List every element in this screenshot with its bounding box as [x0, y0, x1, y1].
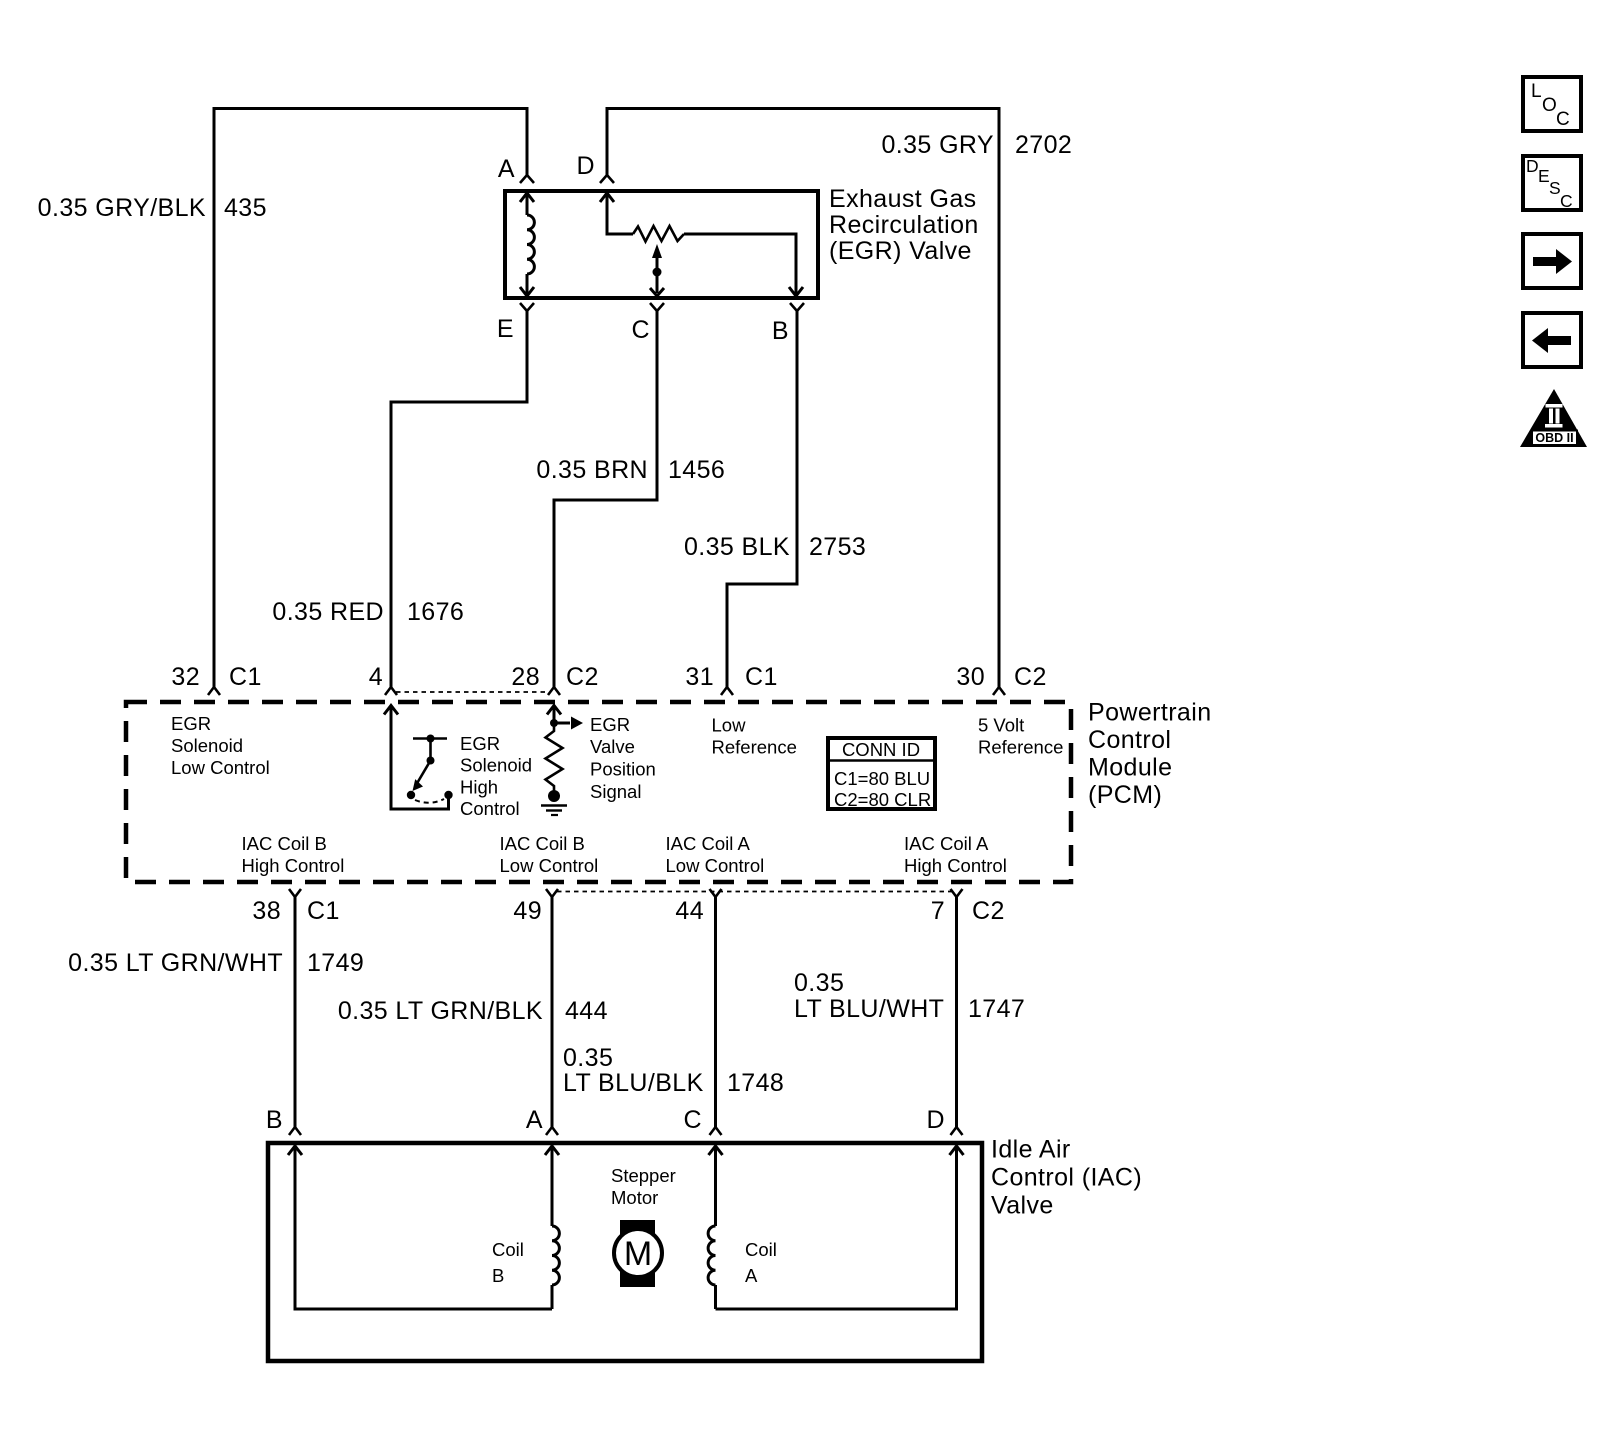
svg-text:C: C [1560, 191, 1573, 211]
IAC pin B connector [289, 1127, 301, 1135]
svg-text:44: 44 [675, 897, 704, 925]
svg-text:C1: C1 [745, 663, 778, 691]
PCM pin 38 connector [289, 889, 301, 897]
svg-text:0.35 GRY/BLK: 0.35 GRY/BLK [38, 194, 206, 222]
EGR valve box [505, 191, 818, 298]
nav icon LOC [1523, 77, 1581, 131]
wire 1748: PCM pin 44 to IAC pin C (0.35 LT BLU/BLK) [714, 897, 717, 1127]
stepper motor M [614, 1220, 662, 1287]
PCM pin 4 connector [385, 687, 397, 695]
svg-text:OBD II: OBD II [1535, 431, 1573, 445]
svg-text:444: 444 [565, 997, 608, 1025]
PCM pin 30 connector [993, 687, 1005, 695]
svg-text:D: D [927, 1106, 945, 1134]
svg-text:E: E [1538, 166, 1550, 186]
svg-text:C2: C2 [972, 897, 1005, 925]
svg-text:1747: 1747 [968, 995, 1025, 1023]
nav icon back arrow [1523, 313, 1581, 367]
svg-text:C1=80 BLU: C1=80 BLU [834, 768, 930, 789]
PCM pin 31 connector [721, 687, 733, 695]
connector link (dashed) pins 49-44-7 [557, 891, 952, 893]
IAC pin A connector [546, 1127, 558, 1135]
svg-text:38: 38 [252, 897, 281, 925]
svg-text:49: 49 [513, 897, 542, 925]
EGR pin B connector [790, 303, 804, 311]
wire 435: PCM pin 32 to EGR pin A (0.35 GRY/BLK) [214, 109, 527, 688]
svg-text:IAC Coil BLow Control: IAC Coil BLow Control [500, 833, 599, 876]
svg-text:B: B [772, 317, 789, 345]
svg-text:30: 30 [956, 663, 985, 691]
svg-text:D: D [577, 152, 595, 180]
svg-text:C1: C1 [229, 663, 262, 691]
svg-text:2702: 2702 [1015, 131, 1072, 159]
svg-text:32: 32 [171, 663, 200, 691]
IAC valve box [268, 1143, 982, 1361]
EGR pin C connector [650, 303, 664, 311]
EGR pin E connector [520, 303, 534, 311]
svg-text:1748: 1748 [727, 1069, 784, 1097]
PCM pin 44 connector [710, 889, 722, 897]
svg-text:1749: 1749 [307, 949, 364, 977]
svg-text:C2: C2 [566, 663, 599, 691]
CONN ID box [828, 738, 935, 809]
svg-text:C2: C2 [1014, 663, 1047, 691]
IAC coil B [545, 1146, 559, 1309]
svg-text:IAC Coil ALow Control: IAC Coil ALow Control [666, 833, 765, 876]
wire 1456: EGR pin C to PCM pin 28 (0.35 BRN) [554, 311, 657, 687]
nav icon DESC [1523, 156, 1581, 211]
svg-text:C: C [632, 316, 650, 344]
EGR pin A connector [520, 175, 534, 183]
svg-text:E: E [497, 315, 514, 343]
svg-text:C: C [684, 1106, 702, 1134]
svg-text:L: L [1531, 81, 1542, 102]
svg-text:1456: 1456 [668, 456, 725, 484]
svg-text:D: D [1526, 156, 1539, 176]
EGR position sensor wiper [650, 244, 664, 296]
PCM pin 32 connector [208, 687, 220, 695]
svg-text:CONN ID: CONN ID [842, 739, 920, 760]
svg-text:1676: 1676 [407, 598, 464, 626]
OBD II icon [1520, 389, 1587, 447]
svg-text:28: 28 [511, 663, 540, 691]
IAC pin D connector [951, 1127, 963, 1135]
EGR solenoid driver (high control switch) [384, 706, 453, 810]
PCM dashed box [126, 702, 1071, 882]
EGR valve position signal node [541, 706, 583, 816]
PCM pin 49 connector [546, 889, 558, 897]
svg-text:435: 435 [224, 194, 267, 222]
EGR position sensor resistive element [600, 193, 803, 296]
EGR solenoid coil [520, 193, 534, 296]
svg-text:S: S [1549, 178, 1561, 198]
IAC coil A [708, 1146, 722, 1309]
svg-text:2753: 2753 [809, 533, 866, 561]
svg-text:C: C [1556, 109, 1570, 130]
svg-text:0.35 RED: 0.35 RED [272, 598, 384, 626]
svg-text:31: 31 [685, 663, 714, 691]
svg-text:A: A [498, 155, 515, 183]
IAC wire from pin B to coil B [288, 1146, 552, 1309]
wire 2702: EGR pin D to PCM pin 30 (0.35 GRY) [607, 109, 999, 688]
wire 1749: PCM pin 38 to IAC pin B (0.35 LT GRN/WHT) [294, 897, 297, 1127]
svg-text:A: A [526, 1106, 543, 1134]
nav icon forward arrow [1523, 234, 1581, 288]
wire 1747: PCM pin 7 to IAC pin D (0.35 LT BLU/WHT) [955, 897, 958, 1127]
EGR pin D connector [600, 175, 614, 183]
svg-text:0.35 LT GRN/WHT: 0.35 LT GRN/WHT [68, 949, 283, 977]
IAC pin C connector [710, 1127, 722, 1135]
svg-text:M: M [624, 1235, 652, 1273]
PCM pin 7 connector [951, 889, 963, 897]
svg-text:0.35 BLK: 0.35 BLK [684, 533, 790, 561]
wire 2753: EGR pin B to PCM pin 31 (0.35 BLK) [727, 311, 797, 687]
svg-text:B: B [266, 1106, 283, 1134]
svg-text:7: 7 [931, 897, 945, 925]
wire 1676: EGR pin E to PCM pin 4 (0.35 RED) [391, 311, 527, 687]
svg-text:C2=80 CLR: C2=80 CLR [834, 789, 931, 810]
svg-text:0.35 GRY: 0.35 GRY [881, 131, 994, 159]
svg-text:0.35 BRN: 0.35 BRN [536, 456, 648, 484]
svg-text:O: O [1542, 95, 1557, 116]
svg-text:0.35 LT GRN/BLK: 0.35 LT GRN/BLK [338, 997, 543, 1025]
svg-text:Exhaust GasRecirculation(EGR): Exhaust GasRecirculation(EGR) Valve [829, 185, 979, 265]
svg-text:4: 4 [369, 663, 383, 691]
wire 444: PCM pin 49 to IAC pin A (0.35 LT GRN/BLK) [551, 897, 554, 1127]
svg-text:C1: C1 [307, 897, 340, 925]
PCM pin 28 connector [548, 687, 560, 695]
IAC wire from coil A to pin D [716, 1146, 964, 1309]
connector link (dashed) pins 4-28 [396, 691, 549, 693]
